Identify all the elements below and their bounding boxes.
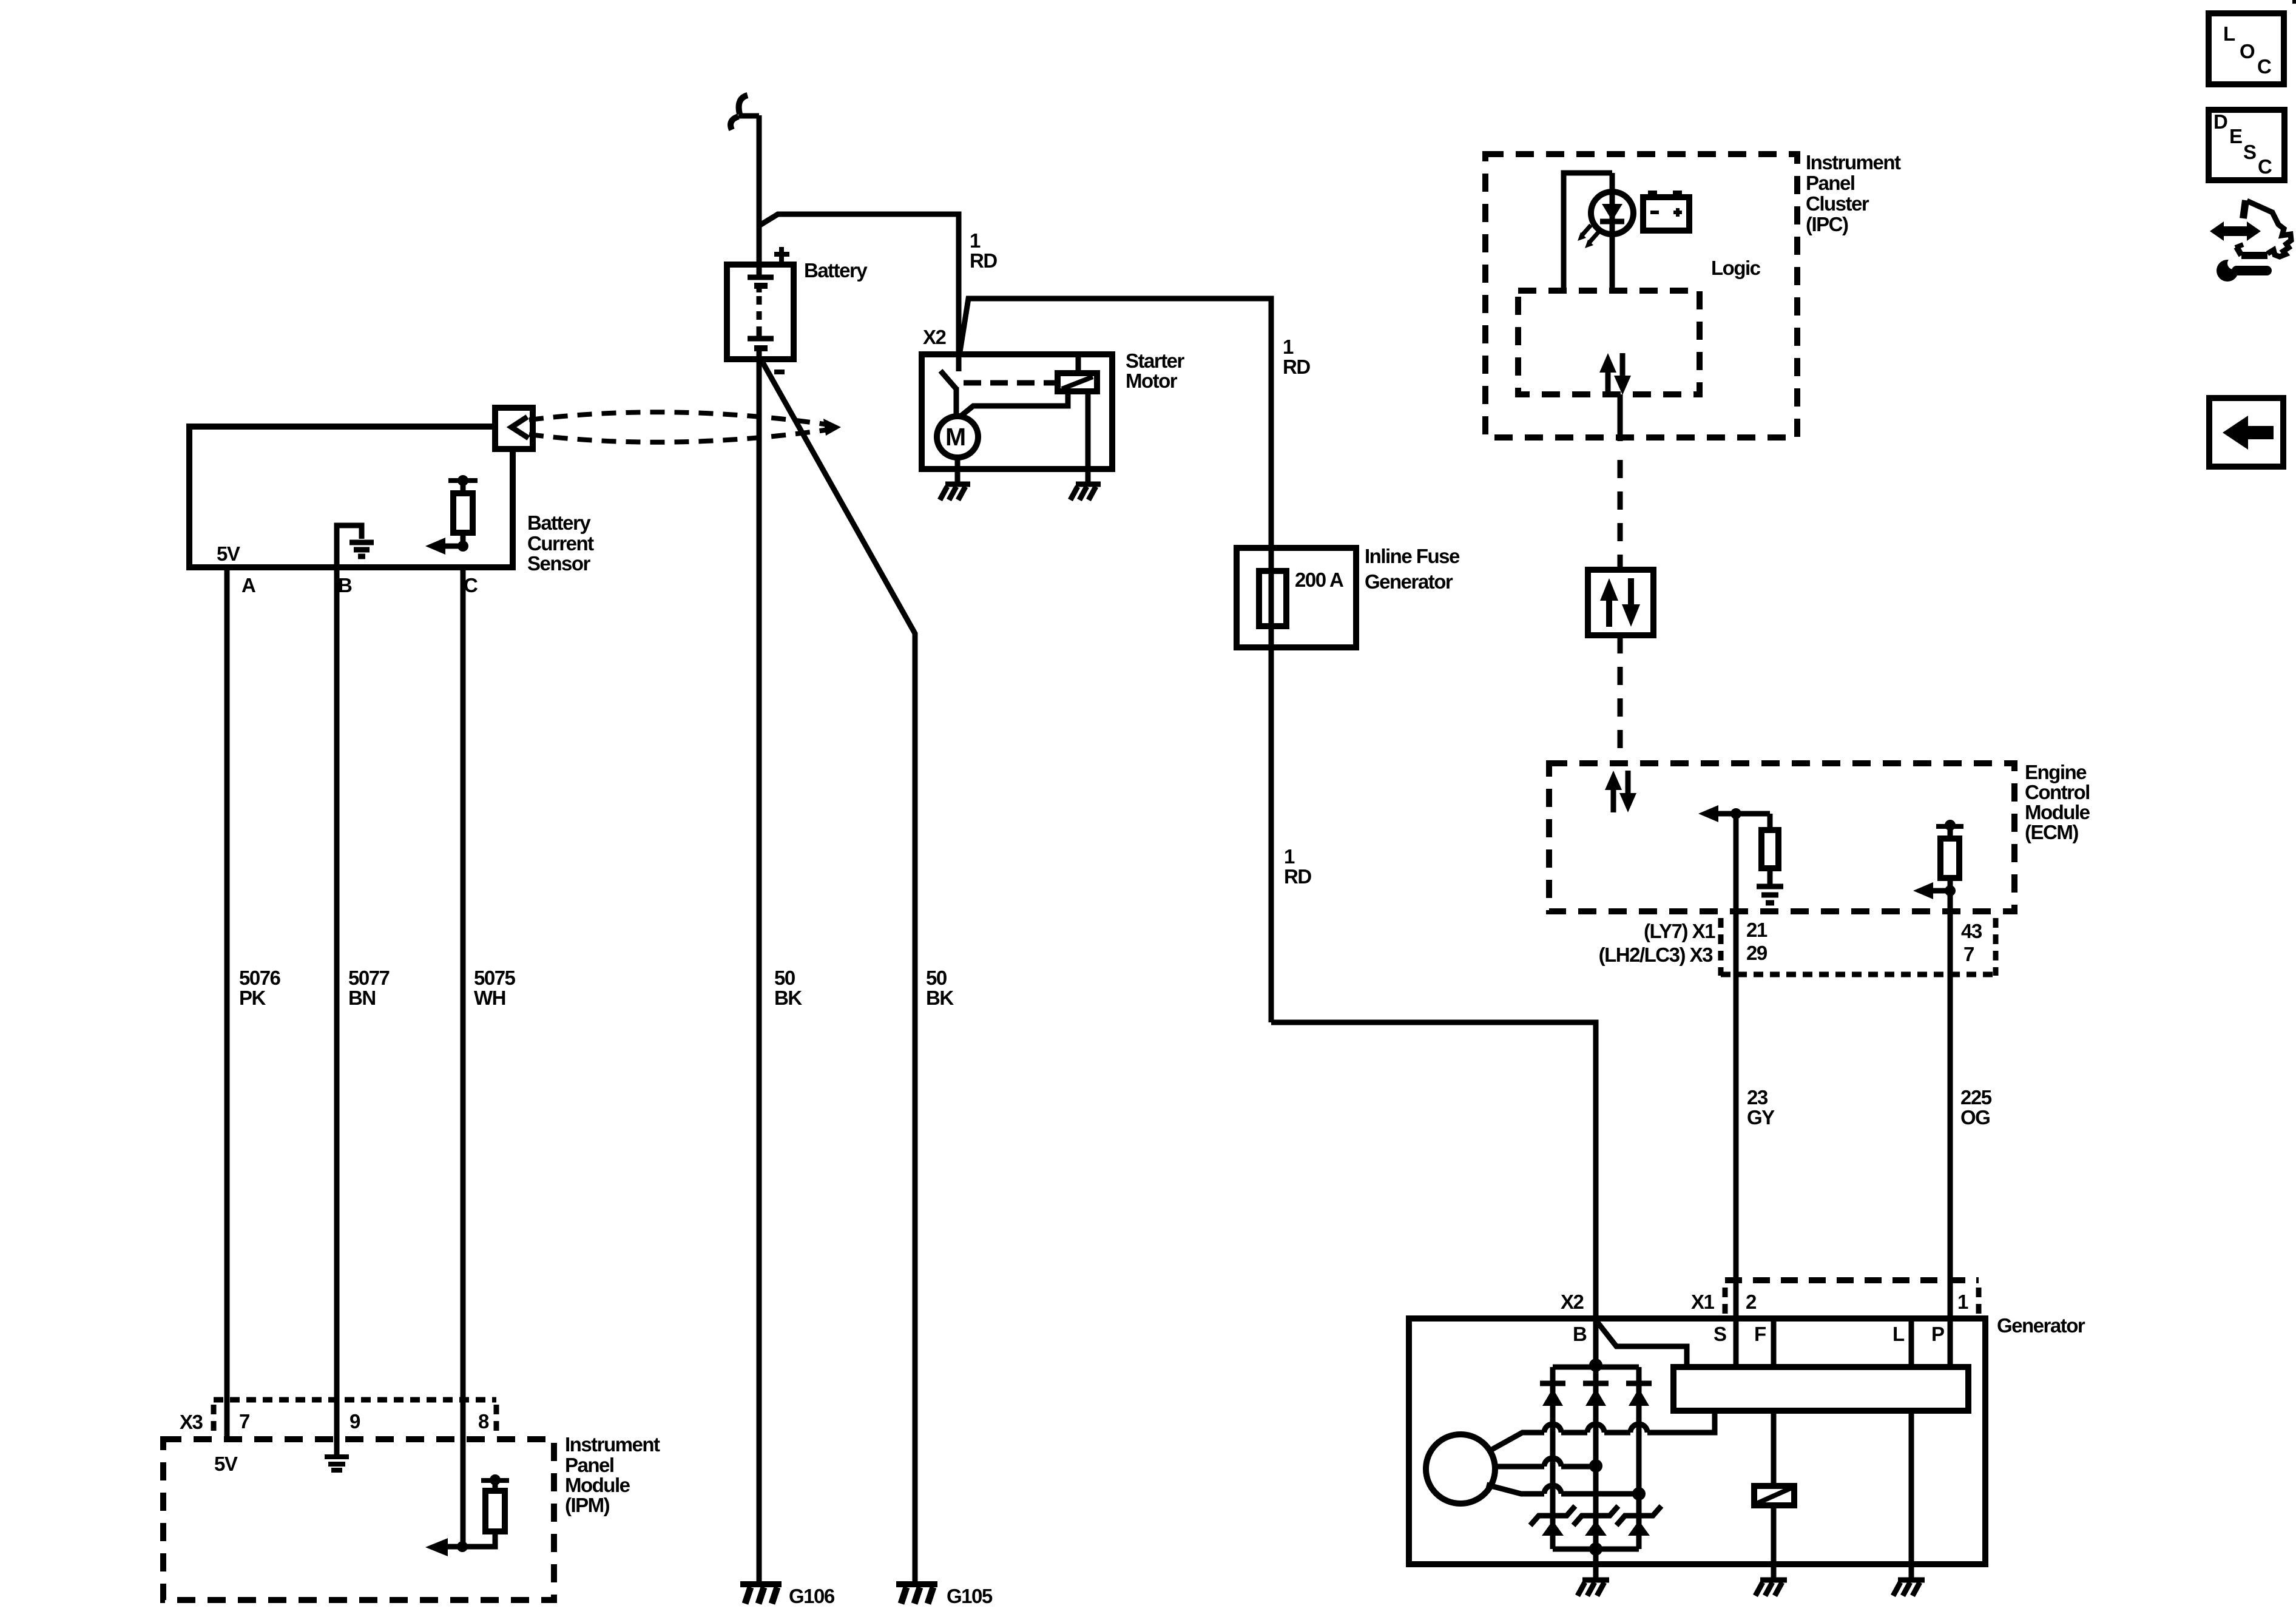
svg-text:X3: X3 — [180, 1411, 203, 1433]
field output wire F — [1771, 1411, 1777, 1486]
instrument panel cluster dashed box — [1485, 154, 1797, 437]
svg-text:BK: BK — [774, 987, 802, 1009]
starter motor box — [922, 354, 1112, 469]
svg-text:Motor: Motor — [1126, 370, 1178, 392]
voltage regulator — [1673, 1367, 1968, 1411]
svg-text:7: 7 — [1963, 943, 1974, 965]
ground (ECM internal) — [1757, 884, 1783, 890]
icon DESC box — [2209, 110, 2284, 180]
logic dashed box — [1518, 291, 1700, 394]
starter mechanical dashed link — [964, 380, 1058, 386]
instrument panel module dashed box — [163, 1439, 554, 1600]
generator box — [1409, 1318, 1985, 1564]
serial data link box — [1588, 570, 1653, 635]
svg-text:1: 1 — [1284, 845, 1295, 868]
svg-text:Module: Module — [565, 1474, 630, 1496]
svg-text:F: F — [1754, 1323, 1766, 1345]
generator connector X1 dashed — [1725, 1277, 1979, 1283]
svg-text:225: 225 — [1960, 1086, 1992, 1109]
svg-text:X2: X2 — [923, 326, 947, 348]
battery plus sign — [774, 252, 789, 257]
diode triangles — [1542, 1388, 1563, 1406]
zener triangles — [1542, 1521, 1564, 1536]
rectifier column 1 — [1550, 1367, 1556, 1549]
svg-text:Battery: Battery — [804, 259, 868, 282]
icon LOC box — [2209, 13, 2284, 84]
svg-text:Battery: Battery — [527, 511, 591, 534]
ground (generator L) — [1898, 1578, 1925, 1583]
wire fuse to generator B — [1271, 1022, 1596, 1367]
svg-text:5076: 5076 — [239, 967, 281, 989]
svg-text:Module: Module — [2025, 801, 2090, 823]
svg-text:PK: PK — [239, 987, 266, 1009]
LED charge indicator — [1591, 192, 1633, 234]
terminal separator L — [1909, 1322, 1914, 1367]
stray dot — [2292, 0, 2296, 4]
generator B internal diagonal to regulator — [1596, 1321, 1687, 1367]
svg-text:50: 50 — [774, 967, 795, 989]
svg-text:L: L — [1893, 1323, 1905, 1345]
starter solenoid switch — [940, 371, 956, 389]
ECM internal resistor (left) — [1768, 814, 1773, 830]
svg-text:P: P — [1931, 1323, 1944, 1345]
ECM internal resistor (right, field monitor) — [1936, 824, 1963, 829]
svg-text:21: 21 — [1746, 919, 1768, 941]
battery minus sign — [774, 370, 785, 374]
battery current sensor box — [189, 427, 513, 567]
diode cathode bars — [1540, 1381, 1565, 1386]
ground G106 — [740, 1581, 782, 1587]
svg-text:5077: 5077 — [348, 967, 390, 989]
svg-text:Control: Control — [2025, 781, 2090, 803]
phase row 1 to regulator — [1490, 1433, 1544, 1451]
svg-text:A: A — [241, 574, 255, 596]
svg-text:RD: RD — [1283, 356, 1310, 378]
wire 5077 BN (pin B) — [334, 567, 340, 1457]
svg-text:Inline Fuse: Inline Fuse — [1365, 545, 1460, 567]
phase row 2 — [1495, 1464, 1544, 1470]
wire battery positive to starter X2 — [759, 214, 959, 371]
svg-text:O: O — [2240, 40, 2255, 62]
svg-text:WH: WH — [474, 987, 505, 1009]
junction dot B bus — [1589, 1359, 1602, 1372]
svg-text:L: L — [2223, 22, 2235, 45]
svg-text:M: M — [945, 423, 966, 451]
wire 50 BK to G106 — [757, 348, 762, 1584]
field relay winding — [1754, 1486, 1794, 1505]
resistor (sensor pin C internal) — [448, 478, 478, 483]
svg-text:1: 1 — [970, 229, 981, 252]
svg-text:B: B — [1573, 1323, 1587, 1345]
svg-text:9: 9 — [349, 1410, 360, 1433]
svg-text:Current: Current — [527, 532, 594, 555]
svg-text:RD: RD — [1284, 865, 1311, 888]
serial link arrows — [1606, 599, 1612, 627]
sensor square arrowhead — [512, 417, 528, 438]
ECM field sense arrow — [1913, 882, 1933, 899]
battery internal dashed center — [757, 296, 762, 333]
svg-text:Generator: Generator — [1997, 1314, 2085, 1337]
starter contact to motor wire — [961, 391, 1068, 416]
rectifier column 3 — [1636, 1367, 1642, 1549]
wire continuation curl at top of battery feed — [738, 113, 759, 119]
wire 225 OG (ECM to generator P) — [1948, 891, 1953, 1367]
starter motor M — [937, 416, 978, 457]
svg-text:X2: X2 — [1561, 1291, 1584, 1313]
ground (generator field) — [1760, 1578, 1787, 1583]
wire 5076 PK (pin A) — [225, 567, 230, 1439]
svg-text:Instrument: Instrument — [565, 1433, 660, 1456]
svg-text:50: 50 — [926, 967, 947, 989]
ellipse arrowhead — [823, 419, 841, 436]
svg-text:Cluster: Cluster — [1806, 192, 1869, 215]
svg-text:OG: OG — [1960, 1106, 1990, 1129]
dashed wire serial link to ECM — [1618, 635, 1623, 763]
rectifier bottom bus — [1553, 1547, 1639, 1552]
ground (starter motor) — [945, 482, 970, 487]
dashed sense ellipse around battery cable — [529, 412, 829, 425]
svg-text:(LY7) X1: (LY7) X1 — [1644, 920, 1715, 942]
svg-text:Sensor: Sensor — [527, 552, 591, 575]
battery current sensor connector square — [495, 408, 533, 449]
inline fuse box — [1237, 548, 1356, 647]
svg-text:E: E — [2229, 125, 2242, 147]
svg-text:C: C — [2258, 155, 2272, 178]
battery B1 — [727, 265, 794, 359]
ECM generator-turn-on output arrow — [1698, 805, 1718, 822]
svg-text:BK: BK — [926, 987, 954, 1009]
wire starter X2 to inline fuse — [960, 299, 1271, 1022]
generator B ground wire — [1593, 1549, 1599, 1580]
starter coil return wire — [1086, 391, 1091, 484]
svg-text:8: 8 — [478, 1410, 489, 1433]
svg-text:S: S — [2243, 141, 2256, 163]
icon connector wrench — [2210, 221, 2224, 241]
ground (starter solenoid) — [1076, 482, 1101, 487]
svg-text:RD: RD — [970, 249, 997, 272]
svg-text:G105: G105 — [947, 1585, 993, 1607]
rectifier column 2 — [1593, 1367, 1599, 1549]
svg-text:Panel: Panel — [1806, 172, 1855, 194]
ground (IPM pin 9) — [325, 1454, 349, 1459]
L output ground wire — [1909, 1411, 1914, 1580]
ground (generator bridge) — [1582, 1578, 1609, 1583]
svg-text:Panel: Panel — [565, 1454, 614, 1476]
wire battery positive feed (vertical) — [757, 115, 762, 278]
svg-text:X1: X1 — [1691, 1291, 1715, 1313]
svg-text:2: 2 — [1746, 1291, 1757, 1313]
fuse element 200 A — [1259, 571, 1286, 626]
svg-text:S: S — [1714, 1323, 1726, 1345]
svg-text:Engine: Engine — [2025, 761, 2087, 783]
svg-text:(LH2/LC3) X3: (LH2/LC3) X3 — [1599, 944, 1714, 966]
svg-text:5V: 5V — [217, 542, 240, 565]
svg-text:5075: 5075 — [474, 967, 516, 989]
LED light arrows — [1582, 225, 1591, 235]
svg-text:C: C — [2257, 55, 2271, 78]
svg-text:Instrument: Instrument — [1806, 151, 1901, 174]
starter motor ground wire — [955, 457, 961, 484]
svg-text:D: D — [2213, 110, 2227, 133]
zener bars — [1530, 1506, 1575, 1525]
stator winding circle — [1426, 1434, 1495, 1504]
svg-text:200 A: 200 A — [1295, 569, 1343, 591]
svg-text:Logic: Logic — [1711, 257, 1761, 279]
svg-text:43: 43 — [1961, 920, 1982, 942]
icon back arrow box — [2209, 398, 2283, 467]
ECM data arrows — [1611, 789, 1616, 812]
ground (sensor pin B internal) — [337, 525, 362, 567]
ECM pin connector dotted — [1718, 918, 1724, 976]
logic data arrows — [1606, 371, 1611, 395]
engine control module dashed box — [1549, 763, 2014, 911]
battery symbol icon (IPC) — [1643, 197, 1689, 231]
starter coil feed wire — [1076, 354, 1081, 373]
wire 50 BK to G105 (battery negative diagonal) — [761, 359, 915, 1584]
svg-text:5V: 5V — [214, 1453, 238, 1475]
ground G105 — [896, 1581, 937, 1587]
telltale lamp feed wire — [1564, 173, 1612, 291]
svg-text:Starter: Starter — [1126, 349, 1185, 372]
svg-text:BN: BN — [348, 987, 376, 1009]
svg-text:(IPM): (IPM) — [565, 1494, 610, 1516]
svg-text:Generator: Generator — [1365, 570, 1453, 593]
svg-text:29: 29 — [1746, 942, 1768, 964]
arrow (sensor pin C output) — [445, 544, 463, 549]
svg-text:1: 1 — [1957, 1291, 1968, 1313]
wire 23 GY (ECM to generator S) — [1734, 814, 1739, 1367]
LED indicator wire — [1610, 173, 1615, 291]
svg-text:GY: GY — [1747, 1106, 1775, 1129]
svg-text:7: 7 — [239, 1410, 249, 1433]
starter relay coil — [1058, 373, 1097, 391]
phase row 3 — [1487, 1485, 1544, 1494]
svg-text:G106: G106 — [789, 1585, 835, 1607]
wire logic to serial link — [1618, 394, 1623, 441]
connector X3 (IPM) dotted — [214, 1397, 496, 1403]
wire 5075 WH (pin C) — [461, 567, 466, 1547]
svg-text:23: 23 — [1747, 1086, 1768, 1109]
svg-text:(IPC): (IPC) — [1806, 213, 1848, 235]
terminal separator F — [1771, 1322, 1777, 1367]
svg-text:B: B — [338, 574, 352, 596]
svg-text:(ECM): (ECM) — [2025, 821, 2078, 843]
svg-text:1: 1 — [1283, 336, 1294, 358]
resistor (IPM pin 8 internal) — [481, 1478, 509, 1483]
rectifier top bus — [1553, 1365, 1639, 1370]
arrow (IPM pin 8 output) — [425, 1538, 448, 1556]
